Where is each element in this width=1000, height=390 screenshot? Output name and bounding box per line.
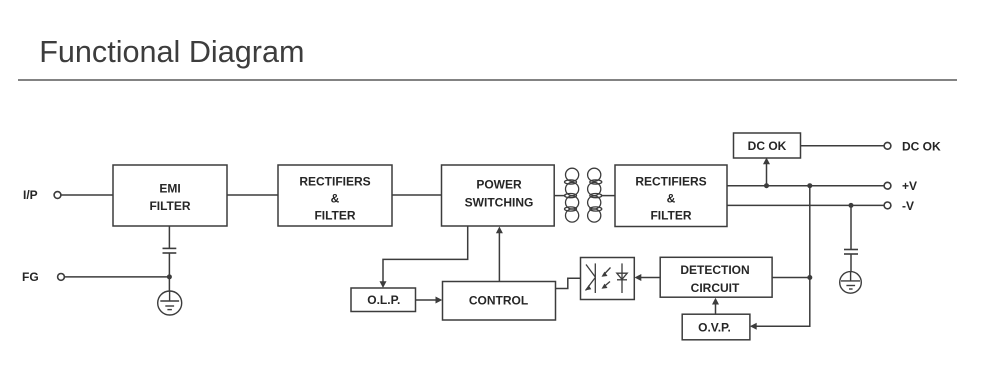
wire RECTIFIERS to POWER SWITCHING [392,194,442,196]
wire EMI FILTER to capacitor C1 [168,226,170,248]
optocoupler zener diode D1 [617,263,627,293]
wire feedback to DETECTION CIRCUIT [772,277,810,279]
svg-text:SWITCHING: SWITCHING [465,196,534,210]
svg-text:CIRCUIT: CIRCUIT [691,281,740,295]
box EMI FILTER [113,165,227,226]
wire capacitor C2 to ground [850,254,852,271]
capacitor C1 [163,248,177,253]
terminal FG [58,274,65,281]
arrow into CONTROL from O.L.P. [436,297,443,304]
svg-text:O.V.P.: O.V.P. [698,321,731,335]
wire O.V.P. to DETECTION CIRCUIT [715,302,717,314]
transformer T1 primary coil [565,168,579,222]
svg-text:DETECTION: DETECTION [680,263,749,277]
box RECTIFIERS & FILTER (output) [615,165,727,227]
junction FG/earth [167,274,172,279]
optocoupler light arrow 2 [602,282,611,289]
svg-text:RECTIFIERS: RECTIFIERS [635,174,706,188]
wire DC OK tap from +V rail [766,160,768,186]
wire +V rail drop to feedback [751,186,810,327]
terminal -V [884,202,891,209]
svg-text:FILTER: FILTER [650,208,691,222]
wire O.L.P. to CONTROL [416,299,441,301]
box DETECTION CIRCUIT [660,257,772,297]
wire CONTROL to POWER SWITCHING [498,229,500,282]
wire capacitor C1 to ground [168,254,170,292]
svg-text:FG: FG [22,270,39,284]
svg-text:DC OK: DC OK [748,139,787,153]
optocoupler emitter arrow [586,285,592,290]
arrow into optocoupler from DETECTION [635,274,642,281]
wire -V rail [727,204,884,206]
wire POWER SWITCHING to transformer primary [554,195,566,197]
earth ground (output) [840,272,862,294]
junction +V drop [807,183,812,188]
wire POWER SWITCHING to O.L.P. [383,226,468,286]
svg-text:RECTIFIERS: RECTIFIERS [299,174,370,188]
svg-text:&: & [331,191,340,205]
arrow into DC OK box [763,158,770,165]
svg-text:POWER: POWER [476,178,522,192]
box DC OK [734,133,801,158]
wire transformer secondary to output RECTIFIERS [601,195,615,197]
junction detection feed [807,275,812,280]
title rule [18,79,957,81]
wire DETECTION to optocoupler [637,277,661,279]
junction DC OK tap [764,183,769,188]
wire DC OK box to DC OK terminal [801,145,885,147]
svg-text:+V: +V [902,179,917,193]
wire -V rail drop to capacitor [850,205,852,249]
junction -V drop [849,203,854,208]
svg-text:&: & [667,191,676,205]
optocoupler light arrow 1 [602,268,611,277]
svg-text:O.L.P.: O.L.P. [367,293,400,307]
wire I/P to EMI FILTER [61,194,113,196]
wire +V rail [727,185,884,187]
svg-text:I/P: I/P [23,188,38,202]
wire CONTROL to optocoupler [556,278,581,288]
box POWER SWITCHING [442,165,555,226]
terminal +V [884,182,891,189]
svg-text:-V: -V [902,199,914,213]
box O.L.P. [351,288,416,312]
svg-text:FILTER: FILTER [149,199,190,213]
transformer T1 secondary coil [588,168,602,222]
wire EMI FILTER to RECTIFIERS [227,194,278,196]
arrow into DETECTION from O.V.P. [712,298,719,305]
arrow into O.L.P. [380,281,387,288]
arrowheads [380,158,771,330]
box RECTIFIERS & FILTER (input) [278,165,392,226]
svg-text:CONTROL: CONTROL [469,294,528,308]
svg-text:FILTER: FILTER [314,208,355,222]
box O.V.P. [682,314,750,340]
svg-text:Functional Diagram: Functional Diagram [39,35,304,69]
capacitor C2 [844,250,858,255]
wire FG to junction [64,276,169,278]
terminal DC OK [884,142,891,149]
svg-text:EMI: EMI [159,182,180,196]
optocoupler phototransistor [586,263,596,293]
arrow into O.V.P. from rail [750,323,757,330]
junction dots [167,183,854,280]
terminal I/P [54,192,61,199]
svg-text:DC OK: DC OK [902,140,941,154]
arrow into POWER SWITCHING from CONTROL [496,227,503,234]
box CONTROL [443,282,556,321]
box optocoupler U1 [581,258,635,300]
earth ground (FG) [158,291,182,315]
